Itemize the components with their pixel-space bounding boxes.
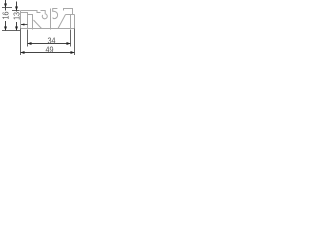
svg-text:16: 16	[1, 12, 10, 20]
svg-text:49: 49	[45, 45, 53, 55]
svg-text:13: 13	[12, 12, 21, 20]
